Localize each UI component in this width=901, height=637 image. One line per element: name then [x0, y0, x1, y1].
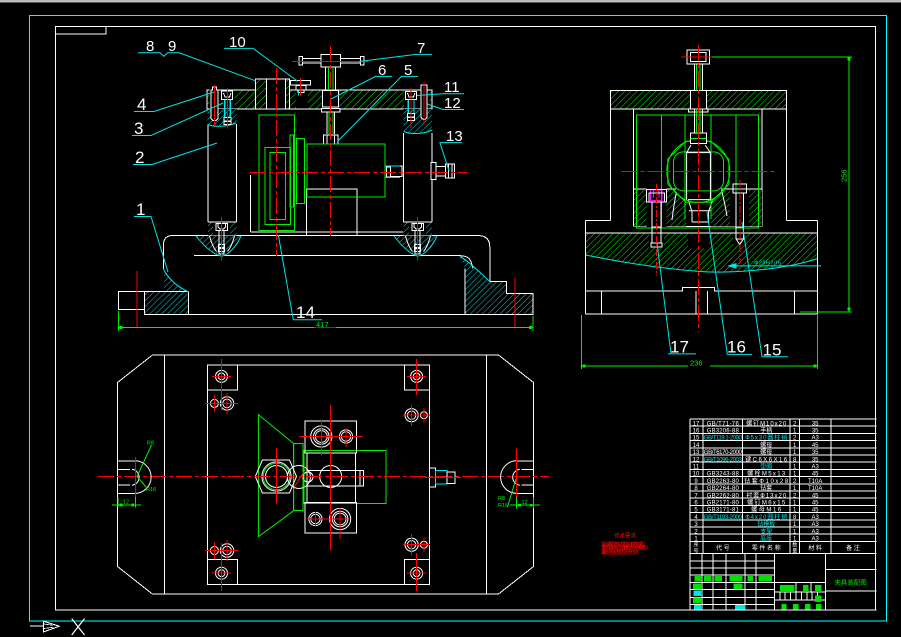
pin 3 left	[210, 88, 219, 109]
BOM grid verticals	[690, 419, 831, 610]
red slash	[294, 468, 306, 487]
title strip box top-left	[56, 27, 107, 35]
right foot bolt	[412, 223, 424, 254]
leader 11	[417, 79, 464, 96]
corner pad BR	[405, 560, 430, 585]
spindle cylinder (green)	[307, 144, 385, 197]
left support hatch	[634, 190, 686, 227]
green cone	[258, 415, 293, 537]
cyan bore dimension	[729, 264, 821, 268]
svg-text:GB/T71-76: GB/T71-76	[707, 421, 740, 427]
svg-text:236: 236	[690, 359, 703, 368]
green cells second row	[693, 583, 821, 591]
bottom block circles	[309, 508, 351, 529]
pin pair TL	[210, 397, 233, 410]
cone ring band	[294, 444, 303, 511]
svg-text:45: 45	[812, 493, 819, 499]
green filled cells big row	[694, 576, 772, 581]
cyan marks in title block	[694, 591, 746, 610]
svg-text:螺母M16: 螺母M16	[751, 506, 782, 514]
center slot	[307, 471, 364, 486]
main horizontal axis top view	[98, 476, 549, 478]
leader 2	[133, 143, 217, 167]
svg-text:12: 12	[522, 500, 528, 506]
svg-text:号: 号	[693, 548, 698, 554]
leader 6	[331, 62, 392, 99]
center red centerlines	[277, 405, 363, 550]
screw nut above octagon	[690, 133, 706, 144]
svg-text:钻套: 钻套	[760, 484, 772, 492]
svg-text:材 料: 材 料	[808, 544, 822, 552]
right slot	[517, 461, 534, 494]
title block grid	[690, 553, 877, 610]
base foot red centerline left	[136, 271, 138, 328]
svg-text:GB2263-80: GB2263-80	[707, 479, 740, 485]
svg-text:417: 417	[316, 320, 329, 329]
svg-text:GB3243-88: GB3243-88	[707, 472, 740, 478]
pin pair BR	[405, 538, 427, 551]
svg-text:手柄: 手柄	[760, 427, 772, 435]
main horizontal centerline	[250, 171, 467, 173]
right foot countersink curves	[406, 236, 431, 252]
corner pad BL	[207, 560, 237, 585]
right column foot hatched band	[404, 222, 433, 236]
flange under plate center	[689, 109, 709, 112]
top bolt head	[687, 50, 710, 64]
break curve (cyan wavy)	[585, 255, 817, 272]
leader 17	[657, 243, 696, 357]
svg-text:A3: A3	[812, 436, 820, 442]
leader 4	[134, 92, 214, 114]
svg-text:Ф5x30圆柱销: Ф5x30圆柱销	[745, 434, 787, 442]
red centerlines pads/pins	[206, 359, 430, 591]
svg-text:GB/T1193-2000: GB/T1193-2000	[704, 515, 743, 521]
workpiece white bore lines	[687, 145, 711, 200]
svg-text:45: 45	[812, 501, 819, 507]
left column walls	[208, 124, 237, 222]
svg-text:3.装配后各运动部位应灵活无卡滞.: 3.装配后各运动部位应灵活无卡滞.	[601, 549, 639, 556]
top block	[305, 421, 357, 453]
screw 6 shaft lower	[327, 112, 335, 134]
svg-text:夹具装配图: 夹具装配图	[834, 578, 867, 587]
nut circles	[262, 462, 291, 491]
left column top section hatch	[207, 109, 236, 126]
svg-text:A3: A3	[812, 537, 820, 543]
svg-text:Ф4x20圆柱销: Ф4x20圆柱销	[745, 513, 787, 521]
svg-text:45: 45	[812, 443, 819, 449]
top grey window strip	[0, 0, 901, 3]
right support hatch	[711, 190, 762, 227]
svg-text:螺钉M6x15: 螺钉M6x15	[747, 499, 786, 507]
top bolt red crosshair	[681, 56, 716, 58]
T-handle bar	[299, 55, 364, 67]
washer circle	[287, 466, 310, 489]
green cage (fork part)	[637, 115, 759, 228]
svg-text:GB2262-80: GB2262-80	[707, 493, 740, 499]
svg-text:35: 35	[812, 429, 819, 435]
bolt 13 top view	[430, 468, 455, 487]
pin pair BL	[210, 544, 233, 557]
plate step lines	[163, 355, 165, 594]
left foot bolt	[216, 223, 228, 254]
svg-text:支架: 支架	[760, 527, 772, 535]
drill plate hatched	[207, 90, 432, 109]
green label glyphs bottom row	[781, 604, 821, 610]
svg-text:GB/T1096-2003: GB/T1096-2003	[704, 457, 743, 463]
magenta key	[651, 190, 662, 200]
BOM row texts	[693, 419, 823, 542]
pin 12 right	[421, 85, 427, 119]
svg-text:量: 量	[792, 547, 797, 554]
dimension 256	[712, 57, 852, 312]
top block circles	[311, 426, 353, 447]
svg-text:35: 35	[812, 457, 819, 463]
svg-text:GB/T119.1-2000: GB/T119.1-2000	[704, 436, 743, 442]
base web break-lines (cyan)	[163, 257, 490, 293]
base hatch left web (cyan section)	[145, 269, 189, 314]
screw 4 left	[222, 91, 233, 124]
left column foot hatched band	[208, 222, 237, 236]
svg-text:A3: A3	[812, 515, 820, 521]
corner pad TL	[207, 365, 237, 390]
svg-text:17: 17	[693, 421, 700, 427]
leader 1	[134, 200, 168, 272]
svg-text:35: 35	[812, 421, 819, 427]
pin pair TR	[405, 409, 427, 422]
svg-text:代 号: 代 号	[716, 544, 730, 552]
boss 9 (bushing housing)	[256, 79, 290, 109]
right column walls	[404, 133, 433, 222]
leader 13	[440, 128, 463, 171]
clamp column centerline	[275, 68, 277, 256]
base foot red centerline right	[514, 278, 516, 328]
svg-text:GB/T6170-2000: GB/T6170-2000	[704, 450, 743, 456]
svg-text:256: 256	[840, 169, 849, 182]
UCS X label	[72, 619, 85, 635]
bottom block	[305, 503, 357, 534]
svg-text:GB3171-81: GB3171-81	[707, 508, 740, 514]
svg-text:12: 12	[123, 500, 129, 506]
svg-text:技 术 要 求: 技 术 要 求	[614, 532, 636, 540]
base outline	[119, 236, 533, 315]
svg-text:T10A: T10A	[808, 486, 822, 492]
side view main vertical centerline	[697, 45, 699, 332]
support block white	[306, 189, 357, 236]
left slot	[118, 461, 135, 494]
spindle flange (green)	[290, 135, 305, 207]
nut 5	[323, 135, 338, 144]
svg-text:衬套Ф13x20: 衬套Ф13x20	[746, 491, 787, 499]
leader 14	[278, 235, 322, 322]
svg-text:A3: A3	[812, 529, 820, 535]
svg-text:钻套Ф10x28: 钻套Ф10x28	[744, 477, 789, 485]
svg-text:15: 15	[693, 436, 700, 442]
svg-text:11: 11	[693, 465, 700, 471]
svg-text:R16: R16	[498, 503, 508, 509]
svg-text:螺母: 螺母	[760, 441, 772, 449]
svg-text:12: 12	[693, 457, 700, 463]
left slot dims green	[112, 445, 152, 508]
screw 11 right	[406, 91, 417, 120]
svg-text:螺母: 螺母	[760, 448, 772, 456]
hex nut	[255, 460, 296, 493]
leader 10	[224, 34, 298, 81]
floor line between columns	[251, 231, 403, 233]
hatch band top edge	[585, 232, 817, 234]
svg-text:13: 13	[693, 450, 700, 456]
svg-text:GB2264-80: GB2264-80	[707, 486, 740, 492]
svg-text:GB3206-88: GB3206-88	[707, 429, 740, 435]
bushing flange	[322, 108, 341, 112]
hatch band blackouts for bolts and stem	[649, 233, 664, 248]
svg-text:16: 16	[727, 338, 746, 357]
right slot dims green	[508, 479, 541, 509]
plate outline	[207, 90, 432, 109]
screw centerline	[329, 46, 331, 236]
support top edges	[634, 188, 647, 190]
svg-text:底座: 底座	[760, 535, 772, 543]
UCS icon bottom-left	[30, 621, 59, 632]
svg-text:垫圈: 垫圈	[760, 463, 772, 471]
part 10 knurled bushing	[290, 80, 310, 92]
screw shaft side view	[694, 64, 702, 133]
right column foot cyan V wedge	[394, 236, 437, 256]
dimension 236	[582, 315, 818, 369]
dimension 417	[119, 311, 533, 331]
bolt 13 side	[431, 163, 455, 180]
svg-text:A3: A3	[812, 522, 820, 528]
right column top section hatch	[404, 109, 433, 134]
svg-text:零 件 名 称: 零 件 名 称	[752, 544, 781, 552]
svg-text:钻模板: 钻模板	[757, 520, 775, 528]
svg-text:螺栓M5x13: 螺栓M5x13	[747, 470, 786, 478]
svg-text:35: 35	[812, 450, 819, 456]
base hatch right web (cyan section)	[460, 257, 533, 315]
workpiece octagon	[667, 140, 730, 203]
left foot countersink curves	[210, 236, 235, 252]
svg-text:R8: R8	[147, 441, 154, 447]
leader 7	[359, 40, 432, 62]
svg-text:14: 14	[693, 443, 700, 449]
svg-text:10: 10	[693, 472, 700, 478]
corner pad TR	[405, 365, 430, 390]
screw 6 shaft upper	[326, 67, 336, 91]
bolt 15 right	[733, 184, 747, 245]
BOM header	[693, 542, 859, 555]
V-block white flanks	[672, 190, 727, 222]
leader 5	[338, 62, 418, 141]
svg-text:T10A: T10A	[808, 479, 822, 485]
svg-text:螺钉M10x20: 螺钉M10x20	[746, 419, 787, 427]
bolt 17 left	[647, 190, 667, 248]
clamp column (green)	[259, 115, 295, 231]
plate holes blackout	[210, 90, 235, 109]
top plate side view hatched	[611, 90, 787, 109]
green body rect	[304, 451, 386, 504]
support body rect	[207, 365, 429, 585]
green cell third row	[693, 598, 701, 604]
svg-text:Φ28H7/f6: Φ28H7/f6	[754, 261, 781, 267]
svg-text:GB2171-80: GB2171-80	[707, 501, 740, 507]
leader 16	[707, 212, 752, 357]
leader 3	[132, 103, 223, 138]
leader 12	[427, 95, 464, 112]
svg-text:14: 14	[296, 303, 315, 322]
bolt notches blackout	[647, 190, 667, 227]
svg-text:备 注: 备 注	[846, 544, 860, 552]
screw bushing in plate	[323, 90, 339, 107]
svg-text:45: 45	[812, 472, 819, 478]
svg-text:R8: R8	[498, 496, 505, 502]
side view horizontal centerline	[621, 171, 775, 173]
svg-text:45: 45	[812, 508, 819, 514]
leader 15	[742, 222, 788, 359]
svg-text:16: 16	[693, 429, 700, 435]
support walls	[611, 109, 787, 227]
svg-text:R16: R16	[146, 487, 156, 493]
left column foot cyan V wedge	[196, 236, 241, 256]
svg-text:A3: A3	[812, 465, 820, 471]
plate outline octagon	[118, 355, 534, 594]
white inner rect	[307, 453, 355, 503]
base outline side view	[585, 221, 817, 314]
BOM grid horizontals	[690, 419, 877, 553]
spindle stub right	[387, 166, 402, 177]
base hatch band (green section)	[585, 233, 817, 272]
leader 8 9	[138, 38, 256, 81]
